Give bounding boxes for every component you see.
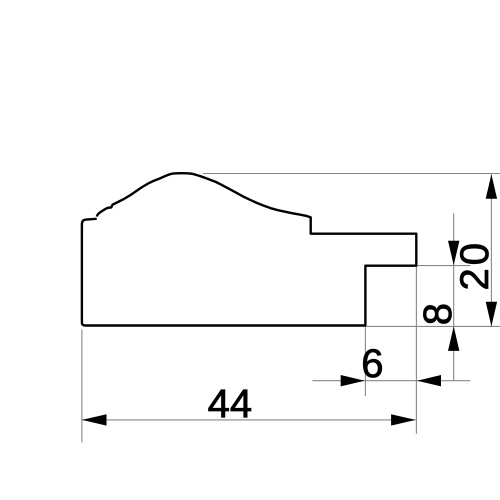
svg-text:20: 20 (453, 240, 497, 291)
svg-text:6: 6 (361, 342, 383, 386)
svg-text:44: 44 (208, 382, 253, 426)
svg-text:8: 8 (416, 303, 460, 325)
